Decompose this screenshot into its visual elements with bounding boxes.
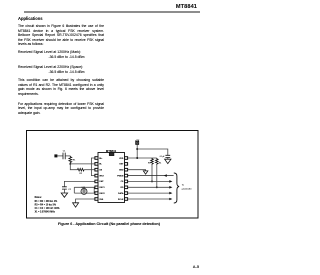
capacitor C3 0.1uF bbox=[165, 155, 170, 157]
paragraph 1 bbox=[18, 24, 104, 47]
arrowhead PWDN pointing left bbox=[164, 174, 167, 177]
arrowhead DCLK bbox=[169, 198, 172, 201]
wire cap to ground bbox=[167, 157, 169, 159]
svg-text:DATA: DATA bbox=[118, 192, 124, 195]
figure 6 schematic bbox=[0, 0, 213, 275]
svg-text:GND: GND bbox=[119, 170, 124, 172]
wire DCLK to bus bbox=[128, 198, 170, 200]
svg-text:Notes:: Notes: bbox=[35, 196, 42, 199]
wire GND pin bbox=[128, 170, 146, 171]
wire pin IN+ to pin VRef jog bbox=[91, 158, 95, 176]
svg-text:IN-: IN- bbox=[99, 164, 102, 166]
wire +5V down to VDD rail bbox=[136, 144, 138, 158]
wire node to pin IN- bbox=[70, 163, 95, 165]
IC notch bbox=[109, 153, 114, 156]
wire C2 to ground bbox=[63, 189, 65, 193]
input terminal TIP bbox=[54, 154, 57, 157]
svg-text:3.58: 3.58 bbox=[82, 187, 85, 189]
wire VDD pin rail bbox=[128, 157, 157, 159]
notes text bbox=[35, 196, 60, 213]
svg-text:OSC2: OSC2 bbox=[99, 193, 105, 195]
svg-text:MT8841: MT8841 bbox=[106, 149, 117, 153]
ground on GND pin bbox=[143, 171, 148, 174]
wire CAP pin to C2 bbox=[64, 181, 94, 186]
wire input to C1 bbox=[57, 155, 63, 157]
svg-text:C2: C2 bbox=[68, 189, 72, 191]
wire R4 to RD line bbox=[156, 165, 158, 187]
svg-text:R3 = R4 = 10 kΩ 5%: R3 = R4 = 10 kΩ 5% bbox=[35, 204, 56, 207]
left pin labels bbox=[99, 158, 105, 201]
left pin stubs bbox=[95, 157, 98, 201]
section heading bbox=[18, 16, 43, 21]
paragraph 3 bbox=[18, 102, 104, 116]
wire R2 to pin GS bbox=[84, 169, 95, 171]
svg-text:µController: µController bbox=[182, 188, 192, 191]
figure caption bbox=[26, 222, 192, 226]
wire branch to bypass cap bbox=[137, 149, 168, 155]
svg-text:CAP: CAP bbox=[99, 180, 104, 183]
figure border frame bbox=[27, 131, 199, 219]
right pin stubs bbox=[125, 157, 128, 201]
paragraph 2 bbox=[18, 78, 104, 96]
crystal X1 3.58 MHz bbox=[81, 188, 87, 194]
ground under bypass cap bbox=[165, 159, 171, 163]
svg-text:R4: R4 bbox=[159, 162, 162, 164]
wire OSC1 OSC2 loop box bbox=[74, 187, 95, 193]
svg-text:VSS: VSS bbox=[99, 199, 104, 201]
ground under C2 bbox=[61, 193, 67, 197]
node at R1 bottom bbox=[69, 163, 71, 165]
wire DATA to bus bbox=[128, 192, 170, 194]
node +5V branch bbox=[136, 148, 138, 150]
wire CS to bus bbox=[128, 180, 170, 182]
svg-text:X1 = 3.579545 MHz: X1 = 3.579545 MHz bbox=[35, 210, 56, 213]
IC U1 MT8841 body bbox=[98, 153, 125, 203]
resistor R1 bbox=[69, 156, 72, 164]
svg-text:VRef: VRef bbox=[99, 175, 104, 177]
svg-text:VDD: VDD bbox=[119, 158, 124, 160]
wire R3 to CS line bbox=[151, 165, 153, 181]
wire PWDN to bus bbox=[128, 175, 174, 177]
svg-text:0.1µF: 0.1µF bbox=[160, 156, 166, 158]
wire RD to bus bbox=[128, 186, 170, 188]
node R4 on RD line bbox=[156, 186, 158, 188]
resistor R3 bbox=[151, 158, 154, 165]
arrowhead RD bbox=[169, 186, 172, 189]
arrowhead CS bbox=[169, 180, 172, 183]
resistor R4 bbox=[156, 158, 159, 165]
svg-text:DCLK: DCLK bbox=[118, 199, 124, 201]
arrowhead DATA bbox=[169, 192, 172, 195]
node on VDD rail bbox=[136, 157, 138, 159]
svg-text:To: To bbox=[182, 184, 185, 186]
label To uController bbox=[182, 184, 192, 190]
svg-text:PWDN: PWDN bbox=[117, 175, 124, 177]
capacitor C2 bbox=[62, 187, 67, 189]
svg-text:C1: C1 bbox=[63, 151, 67, 153]
svg-text:C1 = C2 = 100 nF ±10%: C1 = C2 = 100 nF ±10% bbox=[35, 208, 60, 210]
svg-text:OSC1: OSC1 bbox=[99, 187, 105, 189]
capacitor C1 bbox=[63, 153, 65, 160]
page number bbox=[193, 264, 199, 269]
bus brace bbox=[174, 173, 179, 203]
wire C1 to R1 bbox=[65, 155, 70, 157]
wire VSS pin to ground bbox=[76, 199, 95, 203]
header part number MT8841 bbox=[0, 4, 197, 10]
resistor R2 bbox=[77, 168, 84, 171]
svg-text:R1: R1 bbox=[73, 160, 77, 162]
received level 1200Hz bbox=[18, 50, 81, 54]
header rule bbox=[24, 11, 200, 13]
svg-text:R2: R2 bbox=[79, 173, 83, 175]
wire node down to R2 row bbox=[70, 164, 77, 170]
node R3 on CS line bbox=[151, 180, 153, 182]
received level 2200Hz bbox=[18, 65, 83, 69]
svg-text:R1 = R2 = 200 kΩ 1%: R1 = R2 = 200 kΩ 1% bbox=[35, 200, 58, 203]
ground under VSS bbox=[73, 203, 79, 207]
right pin labels bbox=[117, 158, 124, 201]
